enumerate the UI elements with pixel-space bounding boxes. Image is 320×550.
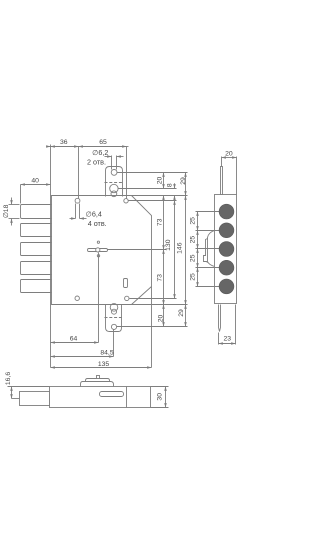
body hole bottom-left xyxy=(75,296,79,300)
svg-text:135: 135 xyxy=(98,361,110,368)
dim 16.6 xyxy=(8,386,50,388)
tab hole bottom xyxy=(111,324,116,329)
bolt 2 xyxy=(21,224,52,237)
leader circle 2 xyxy=(196,230,220,232)
rod bottom xyxy=(219,305,221,332)
svg-text:146: 146 xyxy=(176,242,183,254)
side view bolt xyxy=(20,392,50,406)
chain3: 29 top xyxy=(185,173,187,196)
svg-text:∅6,4: ∅6,4 xyxy=(86,209,102,218)
dim 30 xyxy=(151,386,169,388)
tab dashed line top xyxy=(105,182,124,184)
cylinder profile top (keyhole) xyxy=(110,184,118,192)
ext line tab hole bottom xyxy=(113,330,115,357)
chain1: 20 top xyxy=(163,173,165,189)
spindle small circle above xyxy=(97,241,99,243)
side view cap base xyxy=(81,382,114,387)
right tick body top xyxy=(132,195,188,197)
faceplate edge line xyxy=(50,145,52,368)
plate circle 3 xyxy=(219,242,234,257)
lock bottom mounting tab xyxy=(106,305,122,332)
right tick hole BR xyxy=(130,298,177,300)
side view cap nub xyxy=(97,376,100,379)
svg-text:25: 25 xyxy=(189,273,196,281)
lock body outline xyxy=(52,196,152,305)
leader circle 4 xyxy=(196,267,220,269)
svg-text:20: 20 xyxy=(157,177,164,185)
right tick body bottom xyxy=(132,304,188,306)
chain1: 73 lower xyxy=(163,250,165,305)
dim d18 xyxy=(9,204,20,206)
chain1: 20 bottom xyxy=(163,305,165,327)
tab dashed line bottom xyxy=(105,317,124,319)
rod top xyxy=(221,167,223,195)
leader circle 5 xyxy=(196,286,220,288)
side view inner line xyxy=(126,387,128,408)
plate circle 4 xyxy=(219,260,234,275)
svg-text:16,6: 16,6 xyxy=(5,372,12,385)
svg-text:73: 73 xyxy=(157,274,164,282)
svg-text:2 отв.: 2 отв. xyxy=(87,158,106,167)
svg-text:∅18: ∅18 xyxy=(3,204,10,218)
right tick tab hole bottom xyxy=(117,326,188,328)
svg-text:65: 65 xyxy=(99,139,107,146)
chain 25 x4 xyxy=(197,212,199,231)
side view slot xyxy=(100,392,124,397)
faceplate right view xyxy=(215,195,237,304)
body hole bottom-right xyxy=(125,296,129,300)
dim 84.5 xyxy=(51,356,114,358)
plate circle 1 xyxy=(219,204,234,219)
lock top mounting tab xyxy=(106,167,123,197)
chain1: 73 upper xyxy=(163,196,165,250)
slot right xyxy=(124,279,128,288)
dim 23 plate xyxy=(218,333,220,345)
bolt 5 xyxy=(21,280,52,293)
svg-text:20: 20 xyxy=(225,150,233,157)
body hole top-right xyxy=(124,199,128,203)
dim 36/65 line xyxy=(48,146,51,148)
svg-text:4 отв.: 4 отв. xyxy=(88,219,107,228)
dim 64 xyxy=(51,342,99,344)
svg-text:29: 29 xyxy=(178,309,185,317)
chain3: 29 bottom xyxy=(185,305,187,327)
svg-text:25: 25 xyxy=(189,217,196,225)
plate circle 2 xyxy=(219,223,234,238)
dim 20 plate xyxy=(221,157,223,167)
svg-text:∅6,2: ∅6,2 xyxy=(92,148,108,157)
svg-text:25: 25 xyxy=(189,254,196,262)
svg-text:130: 130 xyxy=(165,239,172,251)
side view body xyxy=(50,387,151,408)
svg-text:73: 73 xyxy=(157,218,164,226)
ext line hole TL xyxy=(78,147,80,199)
spindle bar xyxy=(88,249,108,252)
svg-text:40: 40 xyxy=(31,177,39,184)
side view cap mid xyxy=(86,379,110,382)
svg-text:8: 8 xyxy=(167,183,174,187)
right tick hole TR xyxy=(129,200,177,202)
dim 40 xyxy=(21,184,51,186)
leader circle 1 xyxy=(196,211,220,213)
cylinder profile bottom xyxy=(110,304,118,312)
spindle dot below xyxy=(97,255,99,257)
svg-text:84,5: 84,5 xyxy=(100,350,113,357)
chain2: 8 xyxy=(174,183,176,188)
side view cap line xyxy=(86,381,110,383)
latch outline xyxy=(208,231,215,267)
svg-text:25: 25 xyxy=(189,236,196,244)
ext line hole TR xyxy=(126,147,128,199)
tab hole top xyxy=(111,170,117,176)
dim d6.2 xyxy=(105,156,112,158)
svg-text:64: 64 xyxy=(70,335,78,342)
svg-text:30: 30 xyxy=(156,393,163,401)
spindle hub circle xyxy=(96,248,100,252)
plate circle 5 xyxy=(219,279,234,294)
bolt 4 xyxy=(21,262,52,275)
right tick spindle xyxy=(108,249,167,251)
bolt 1 xyxy=(21,205,52,219)
svg-text:20: 20 xyxy=(158,315,165,323)
svg-text:29: 29 xyxy=(180,177,187,185)
dim 135 xyxy=(51,367,152,369)
latch face xyxy=(204,239,208,263)
ext line right bump xyxy=(151,287,153,368)
body hole top-left xyxy=(75,198,80,203)
bolt 3 xyxy=(21,243,52,256)
right tick tab hole xyxy=(117,172,188,174)
chain3: 146 xyxy=(185,196,187,305)
svg-text:36: 36 xyxy=(60,139,68,146)
leader circle 3 xyxy=(196,248,220,250)
right tick keyhole xyxy=(119,188,177,190)
svg-text:23: 23 xyxy=(224,336,232,343)
chain2: 130 xyxy=(174,201,176,299)
dim d6.4 xyxy=(75,204,77,219)
centerline down from spindle xyxy=(98,253,100,343)
